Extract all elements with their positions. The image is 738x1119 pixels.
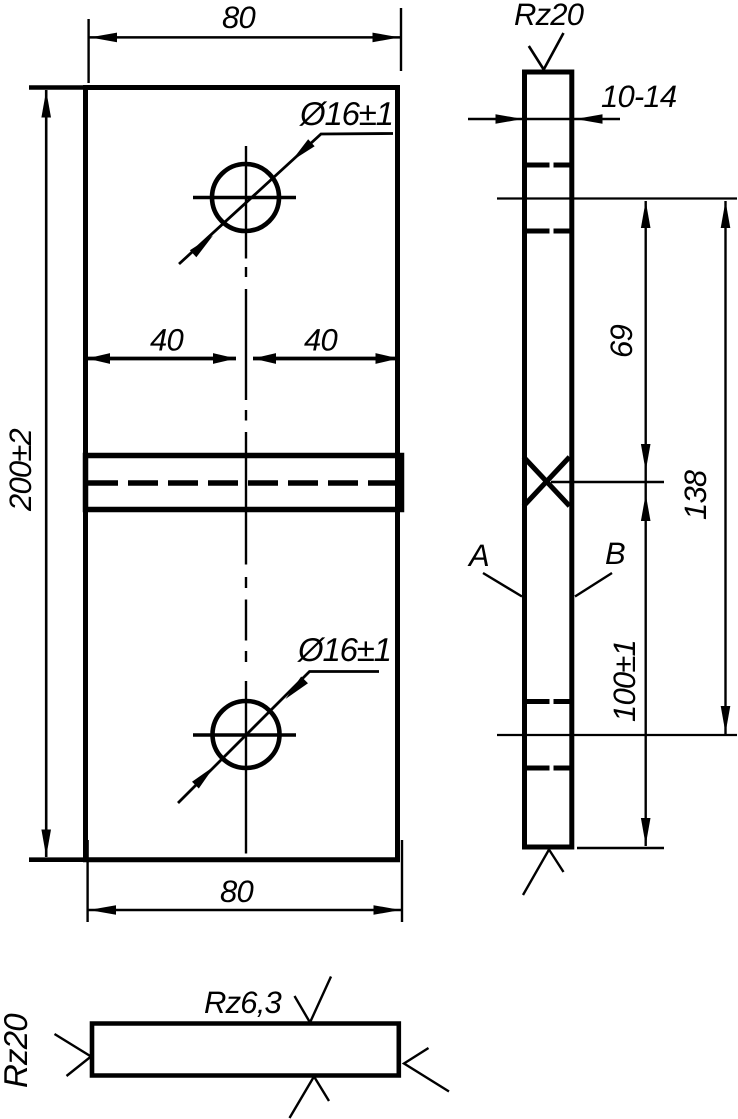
hidden edge dashed line: [88, 480, 396, 486]
svg-text:Ø16±1: Ø16±1: [299, 95, 393, 132]
A leader: [483, 573, 522, 597]
svg-text:Ø16±1: Ø16±1: [297, 631, 391, 668]
surface finish mark bottom of side view: [523, 850, 564, 896]
dim 138 line: [724, 201, 726, 734]
dim 80 top extension lines: [87, 19, 89, 83]
surface finish mark left of bottom view: [55, 1034, 92, 1076]
svg-text:40: 40: [304, 323, 337, 358]
dim 80 bottom extension lines: [86, 840, 88, 922]
extension line y735: [497, 734, 737, 736]
side view hidden line hole1 bottom: [527, 229, 570, 234]
svg-text:40: 40: [150, 323, 183, 358]
side view hidden line hole1 top: [527, 163, 570, 168]
hole 1 horizontal centerline: [193, 196, 296, 199]
side view hidden line hole2 top: [527, 699, 570, 704]
svg-text:200±2: 200±2: [3, 428, 38, 512]
dim 69 and 100±1 line: [645, 201, 647, 846]
svg-text:B: B: [605, 536, 625, 571]
svg-text:A: A: [467, 538, 489, 573]
svg-text:10-14: 10-14: [601, 79, 677, 114]
svg-text:Rz20: Rz20: [0, 1013, 34, 1088]
extension line top y198.5: [497, 197, 737, 199]
dim 40 left line: [85, 357, 236, 361]
hole 1 circle: [212, 164, 279, 231]
svg-text:Rz6,3: Rz6,3: [204, 985, 282, 1020]
dim 200±2 extension lines: [29, 85, 86, 90]
B leader: [575, 573, 612, 597]
surface finish mark top of bottom view: [295, 977, 332, 1023]
front view plate outline: [86, 88, 398, 860]
extension line bottom y848: [577, 847, 664, 850]
surface finish mark bottom of bottom view: [290, 1077, 330, 1119]
weld X mark: [524, 457, 570, 506]
hole 2 circle: [213, 701, 280, 768]
bottom view outline: [92, 1024, 399, 1076]
svg-text:100±1: 100±1: [607, 640, 642, 722]
dim 200±2 line: [45, 90, 48, 857]
svg-text:138: 138: [678, 469, 713, 520]
dim 10-14 line: [468, 118, 620, 120]
lap joint strip: [86, 456, 402, 510]
hole 1 leader: [179, 134, 393, 265]
dim 80 top line: [89, 36, 400, 39]
dim 80 bottom line: [88, 909, 401, 912]
surface finish mark right of bottom view: [404, 1048, 449, 1092]
side view outline: [525, 72, 572, 847]
svg-text:Rz20: Rz20: [514, 0, 584, 32]
vertical centerline: [245, 146, 247, 854]
side view hidden line hole2 bottom: [527, 766, 570, 771]
surface finish mark top Rz20: [529, 33, 564, 70]
extension line weld y482: [551, 481, 664, 484]
svg-text:80: 80: [222, 0, 255, 35]
svg-text:69: 69: [604, 325, 639, 358]
dim 40 right line: [253, 357, 400, 361]
hole 2 leader: [178, 672, 379, 804]
hole 2 horizontal centerline: [193, 733, 296, 736]
svg-text:80: 80: [220, 874, 253, 909]
